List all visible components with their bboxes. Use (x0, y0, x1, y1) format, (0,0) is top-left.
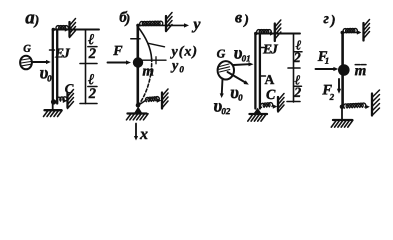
svg-text:0: 0 (238, 93, 243, 103)
svg-text:0: 0 (179, 64, 184, 74)
svg-text:2: 2 (88, 86, 96, 102)
svg-text:m: m (355, 63, 367, 79)
svg-text:EJ: EJ (54, 45, 71, 60)
svg-text:01: 01 (242, 53, 251, 63)
svg-text:2: 2 (293, 51, 301, 66)
svg-text:2: 2 (329, 92, 335, 102)
svg-text:2: 2 (293, 86, 301, 101)
svg-text:C: C (65, 81, 74, 96)
svg-text:y: y (170, 58, 179, 73)
svg-text:G: G (23, 44, 31, 55)
svg-text:G: G (217, 47, 226, 61)
svg-text:02: 02 (221, 106, 231, 116)
svg-text:y: y (191, 16, 201, 33)
svg-text:C: C (266, 88, 276, 103)
svg-text:EJ: EJ (262, 41, 279, 56)
svg-text:2: 2 (88, 46, 96, 62)
svg-text:г: г (323, 11, 329, 27)
svg-text:F: F (112, 44, 123, 59)
svg-text:1: 1 (325, 56, 330, 66)
svg-text:y(x): y(x) (170, 44, 199, 59)
svg-text:в: в (235, 9, 242, 26)
svg-text:x: x (139, 126, 148, 143)
svg-text:A: A (264, 72, 274, 87)
svg-text:m: m (142, 63, 154, 79)
svg-text:0: 0 (47, 73, 52, 83)
